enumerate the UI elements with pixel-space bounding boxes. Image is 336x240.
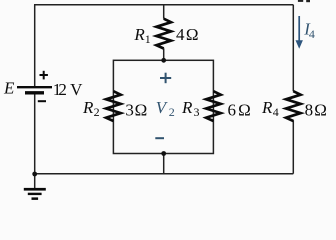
svg-text:3: 3 [125, 100, 133, 119]
svg-text:8: 8 [305, 100, 314, 119]
svg-text:3: 3 [194, 105, 200, 119]
svg-text:R: R [82, 98, 94, 117]
svg-text:Ω: Ω [238, 100, 251, 119]
svg-text:4: 4 [309, 27, 315, 41]
svg-text:Ω: Ω [135, 100, 148, 119]
svg-text:2: 2 [58, 80, 67, 99]
svg-text:1: 1 [145, 32, 151, 46]
svg-text:Ω: Ω [314, 100, 327, 119]
svg-text:R: R [133, 25, 145, 44]
svg-text:2: 2 [169, 105, 175, 119]
svg-text:E: E [3, 79, 15, 98]
svg-text:6: 6 [228, 100, 237, 119]
svg-text:2: 2 [94, 105, 100, 119]
svg-text:4: 4 [176, 25, 185, 44]
svg-text:V: V [70, 80, 83, 99]
svg-text:R: R [261, 98, 273, 117]
svg-text:Ω: Ω [186, 25, 199, 44]
svg-text:4: 4 [273, 105, 279, 119]
svg-text:R: R [181, 98, 193, 117]
